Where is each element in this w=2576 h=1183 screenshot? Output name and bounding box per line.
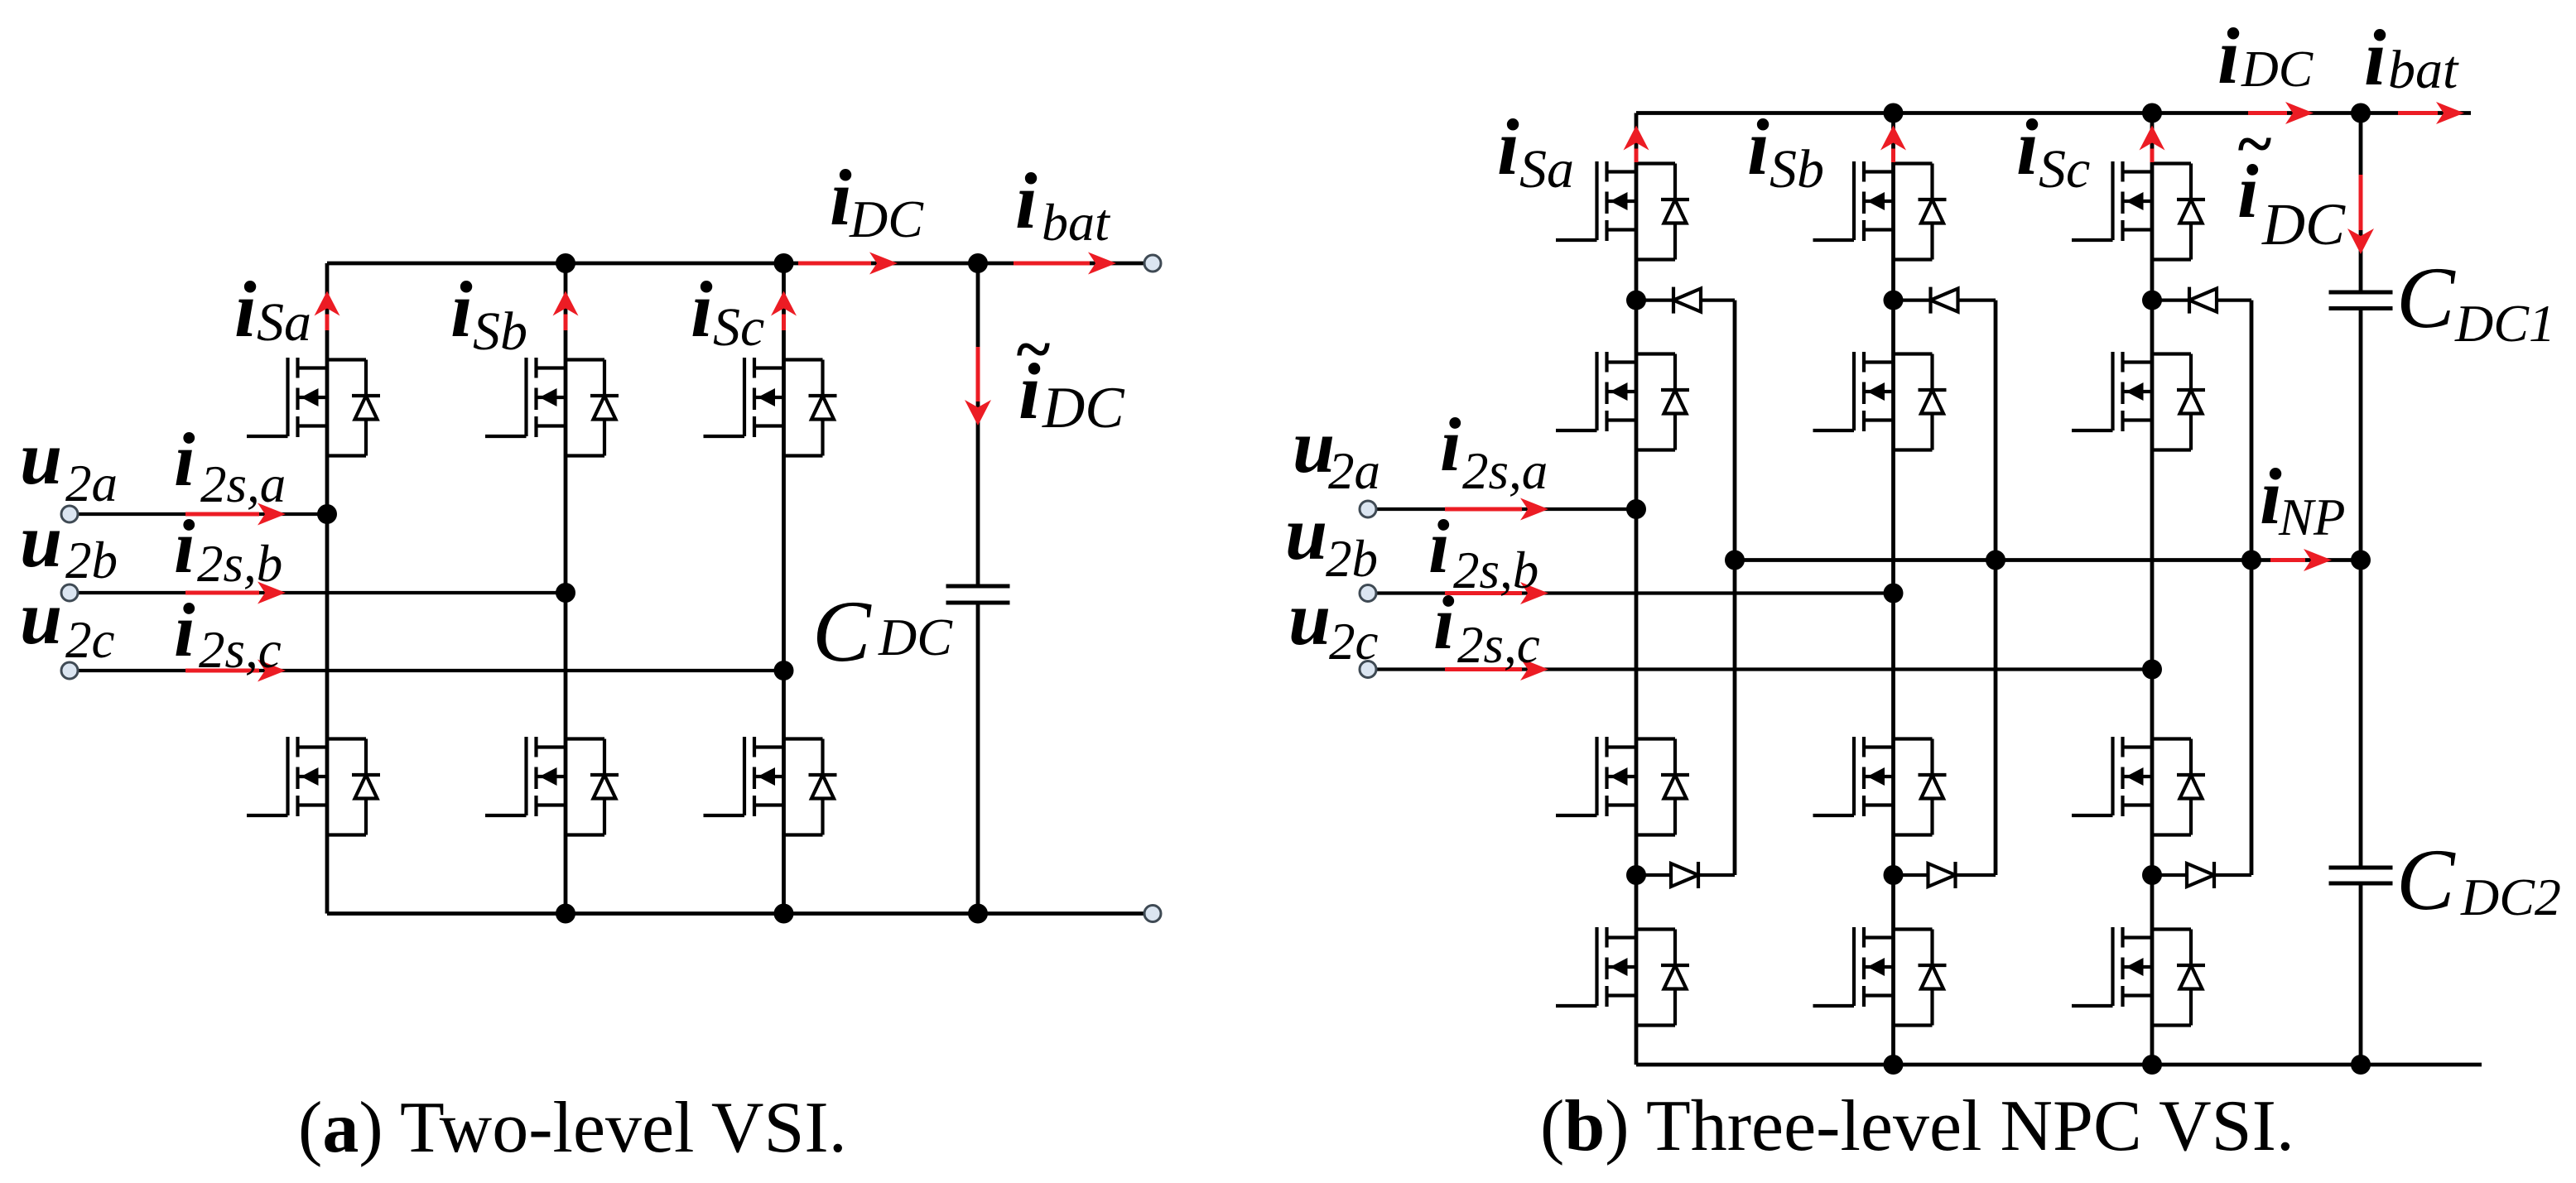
svg-text:2a: 2a [1328,442,1380,500]
svg-text:i: i [691,265,713,353]
svg-text:u: u [1285,491,1327,575]
svg-text:Sc: Sc [713,297,764,358]
svg-text:DC1: DC1 [2454,294,2555,353]
svg-text:DC: DC [2261,191,2346,257]
svg-text:u: u [1288,576,1331,661]
svg-text:u: u [20,498,62,583]
svg-text:DC: DC [2241,41,2314,98]
svg-text:i: i [1747,103,1769,191]
svg-text:2s,b: 2s,b [1453,541,1538,599]
svg-text:i: i [174,417,195,502]
svg-text:i: i [1497,103,1519,191]
svg-text:~: ~ [2236,108,2272,180]
svg-text:2a: 2a [65,454,118,512]
svg-text:2s,a: 2s,a [200,455,286,513]
svg-text:2s,c: 2s,c [1457,616,1540,674]
svg-text:i: i [450,265,473,353]
svg-text:2c: 2c [1329,613,1379,671]
svg-text:i: i [1428,504,1450,589]
svg-text:2s,c: 2s,c [199,621,282,679]
svg-text:(b) Three-level NPC VSI.: (b) Three-level NPC VSI. [1540,1086,2294,1166]
svg-text:u: u [20,416,62,500]
svg-text:i: i [830,153,852,242]
svg-text:DC: DC [849,190,924,248]
svg-text:i: i [1440,402,1461,487]
svg-text:2c: 2c [65,611,115,669]
svg-text:bat: bat [2388,40,2459,100]
svg-text:2s,a: 2s,a [1462,442,1548,500]
svg-text:i: i [2364,13,2386,102]
svg-text:i: i [174,504,195,589]
svg-text:i: i [2217,12,2240,100]
svg-text:Sa: Sa [257,292,311,353]
svg-text:C: C [812,583,872,680]
svg-text:i: i [1433,580,1455,665]
svg-text:NP: NP [2278,488,2346,546]
svg-text:2b: 2b [1326,530,1378,588]
svg-text:Sb: Sb [473,301,527,362]
svg-text:Sc: Sc [2039,139,2090,200]
svg-text:(a) Two-level VSI.: (a) Two-level VSI. [298,1088,847,1168]
svg-text:i: i [1015,156,1038,245]
svg-text:u: u [20,575,62,660]
svg-text:2s,b: 2s,b [197,535,282,593]
svg-text:i: i [234,265,257,353]
svg-text:Sa: Sa [1519,139,1574,200]
svg-text:DC: DC [1042,376,1125,440]
svg-text:i: i [174,588,195,672]
svg-text:i: i [2016,103,2039,191]
svg-text:2b: 2b [65,531,118,589]
svg-text:~: ~ [1014,313,1051,385]
svg-text:C: C [2396,249,2456,346]
svg-text:Sb: Sb [1769,139,1824,200]
svg-text:C: C [2396,831,2456,928]
svg-text:DC2: DC2 [2460,868,2561,926]
svg-text:DC: DC [878,608,953,666]
svg-text:bat: bat [1042,193,1111,252]
